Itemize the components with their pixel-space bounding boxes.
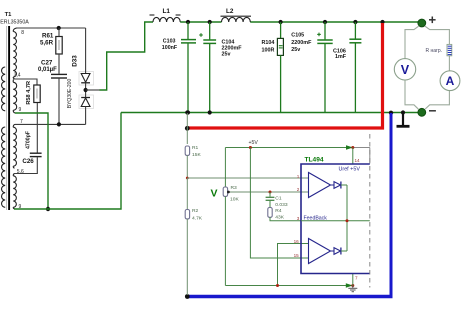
wire net R3 wiper to pin2 [228,191,309,193]
wire arrow into Uref node [346,145,353,150]
svg-text:4700pF: 4700pF [25,131,31,149]
inductor L1 [150,15,181,22]
svg-text:3: 3 [297,216,300,221]
svg-text:10K: 10K [230,197,239,203]
svg-text:R104: R104 [262,40,275,46]
svg-text:V: V [401,63,410,77]
wire pin7 rail to D33 [15,123,86,125]
svg-text:R1: R1 [192,145,199,151]
potentiometer R3 [223,148,230,286]
svg-text:25v: 25v [291,47,300,53]
node dot blue wire bottom left [185,294,190,299]
svg-text:25v: 25v [222,52,231,58]
svg-text:D33: D33 [72,55,79,67]
resistor R61 [56,28,62,74]
svg-text:1: 1 [297,174,300,179]
svg-text:0.033: 0.033 [275,202,288,208]
inductor L2 [221,16,252,22]
capacitor C105 (electrolytic) [317,22,333,113]
wire arrow into pin7 ground [346,283,353,288]
node dot red wire tap [380,20,384,24]
wire meter loop left branch [405,26,419,109]
svg-text:0,01µF: 0,01µF [38,67,57,73]
plus sign label [429,17,436,24]
svg-text:100R: 100R [262,48,275,54]
diode D int2 [331,248,348,255]
wire +5V rail of subcircuit [225,148,369,164]
resistor R1 [185,146,189,178]
svg-text:C26: C26 [22,158,34,165]
svg-text:2: 2 [297,187,300,192]
wire FeedBack line [301,220,370,222]
node junction R1/R2 divider [186,177,189,180]
node terminal + (output) [418,19,426,27]
svg-text:C105: C105 [291,33,304,39]
svg-text:15: 15 [294,253,300,258]
wire red positive sense [188,23,383,128]
node dot divider chain top on rail [185,110,189,114]
wire meter loop right branch [425,26,449,109]
svg-text:L1: L1 [163,8,171,15]
wire net divider to pin1 [187,177,308,179]
node dot R104 top [279,20,283,24]
svg-text:Uref +5V: Uref +5V [339,166,361,172]
R3 value label [230,185,239,203]
wire green staircase from rectifier to L1 [100,22,154,90]
svg-text:R нагр.: R нагр. [426,48,443,54]
C1 value label [275,195,288,208]
wire pin9 upper green [15,113,48,209]
svg-text:9: 9 [19,107,22,113]
svg-text:R58 4,7R: R58 4,7R [26,81,32,105]
svg-text:FeedBack: FeedBack [304,216,328,222]
svg-text:100nF: 100nF [162,45,178,51]
svg-text:4.7K: 4.7K [192,215,203,221]
R2 value label [192,208,203,221]
svg-text:+5V: +5V [249,140,259,146]
capacitor C26 chain from R58/pin7 [14,103,37,174]
wire pin16 to ground line [278,244,309,286]
transformer T1 winding pin5,6-pin9 [13,174,16,210]
resistor R104 [277,22,283,113]
resistor R58 [34,85,40,103]
node dot C103 bottom [186,110,190,114]
wire sense chain vertical (rail to R1) [186,113,188,144]
node dot feedback junction [346,219,349,222]
op-amp error amplifier 1 [309,173,331,198]
capacitor C106 [349,22,361,113]
transformer T1 labels [0,12,29,25]
svg-text:V: V [211,188,218,200]
node dot C27 bottom [57,122,61,126]
transformer T1 [2,26,10,210]
svg-text:2200mF: 2200mF [222,46,243,52]
svg-text:C104: C104 [222,39,235,45]
C103 value label [162,38,178,51]
ground symbol (main) [397,113,410,127]
wire pin8 to D33 top (grey top wire) [16,27,86,29]
svg-text:43K: 43K [275,214,284,220]
op-amp error amplifier 2 [309,239,331,264]
svg-text:R4: R4 [275,208,282,214]
svg-text:3,4: 3,4 [14,73,21,79]
svg-text:C27: C27 [41,60,53,67]
svg-text:1mF: 1mF [335,54,347,60]
C104 value label [222,39,243,57]
node dot blue wire top [389,111,393,115]
svg-text:TL494: TL494 [305,156,324,163]
wire subcircuit ground line [225,285,352,287]
diode D int1 [331,182,348,189]
ground symbol (pin7) [348,286,357,292]
node dot R61 tap on top wire [57,26,61,30]
C27 value label [38,60,57,73]
svg-text:15K: 15K [192,152,201,158]
capacitor C1 [266,192,275,208]
ammeter A [440,71,460,91]
wire internal output vertical [346,185,348,251]
R61 value label [40,33,54,47]
wire D33 output to green riser [86,89,100,91]
resistor R2 [185,178,189,295]
node dot red wire to divider [185,126,190,131]
wire pin9 lower green to riser [14,113,121,210]
capacitor C103 [181,22,196,113]
diode D33 (dual, BYQ30E-200) [79,28,94,124]
R4 value label [275,208,284,220]
R104 value label [262,40,275,53]
node dot pin16 ground junction [276,284,279,287]
node dot C104 bottom [208,110,212,114]
svg-text:R61: R61 [42,33,54,40]
node dot Uref/+5V junction [351,146,354,149]
node dot C1 top junction [269,191,272,194]
node dot D33 common cathode [84,88,88,92]
wire +5V to pin15 [250,148,308,259]
R1 value label [192,145,201,158]
svg-text:14: 14 [355,158,361,163]
svg-text:C1: C1 [275,195,282,201]
C106 value label [333,49,347,61]
svg-text:8: 8 [21,30,24,36]
wire pin3,4 to R58 [14,79,37,85]
svg-text:7: 7 [355,276,358,281]
svg-text:BYQ30E-200: BYQ30E-200 [67,79,73,109]
dashed boundary line [369,134,371,288]
svg-text:R3: R3 [231,185,238,191]
wire blue ground return [390,113,393,295]
wire pin7 stub [352,274,354,286]
svg-text:5,6R: 5,6R [40,40,54,47]
wire bottom green rail [121,112,419,114]
svg-text:-ERL35350A: -ERL35350A [0,19,29,25]
resistor R load (R нагр.) [447,44,452,55]
wire blue bottom thick segment [188,295,393,298]
svg-text:R2: R2 [192,208,199,214]
capacitor C104 (electrolytic) [199,22,216,113]
voltmeter V [394,59,415,80]
wire top green rail [180,21,419,23]
svg-text:2200mF: 2200mF [291,40,312,46]
node dot C104 top [208,20,212,24]
node dot pin15 feed junction [249,146,252,149]
svg-text:A: A [446,74,455,88]
svg-text:16: 16 [294,239,300,244]
node dot pin9 junction [46,207,50,211]
transformer T1 secondary winding pin3,4-pin9 [13,79,17,113]
node dot C105 top [323,20,327,24]
node dot ground tap [401,110,405,114]
capacitor C27 [51,74,67,124]
node dot C103 top [186,20,190,24]
C105 value label [291,33,312,54]
wire pin14 stub to +5V [352,148,354,165]
node dot C106 top [353,20,357,24]
node dot pin7 ground junction [351,284,354,287]
IC U1 TL494 box [301,164,370,274]
capacitor C26 plates [30,153,42,156]
svg-text:C103: C103 [163,38,176,44]
svg-text:T1: T1 [5,12,13,18]
svg-text:L2: L2 [226,8,234,15]
transformer T1 secondary winding pin8-pin3,4 [13,28,17,79]
transformer T1 winding pin7-pin5,6 [13,124,16,168]
minus sign label [429,110,436,112]
resistor R4 [268,208,301,221]
node terminal - (output) [418,108,426,116]
